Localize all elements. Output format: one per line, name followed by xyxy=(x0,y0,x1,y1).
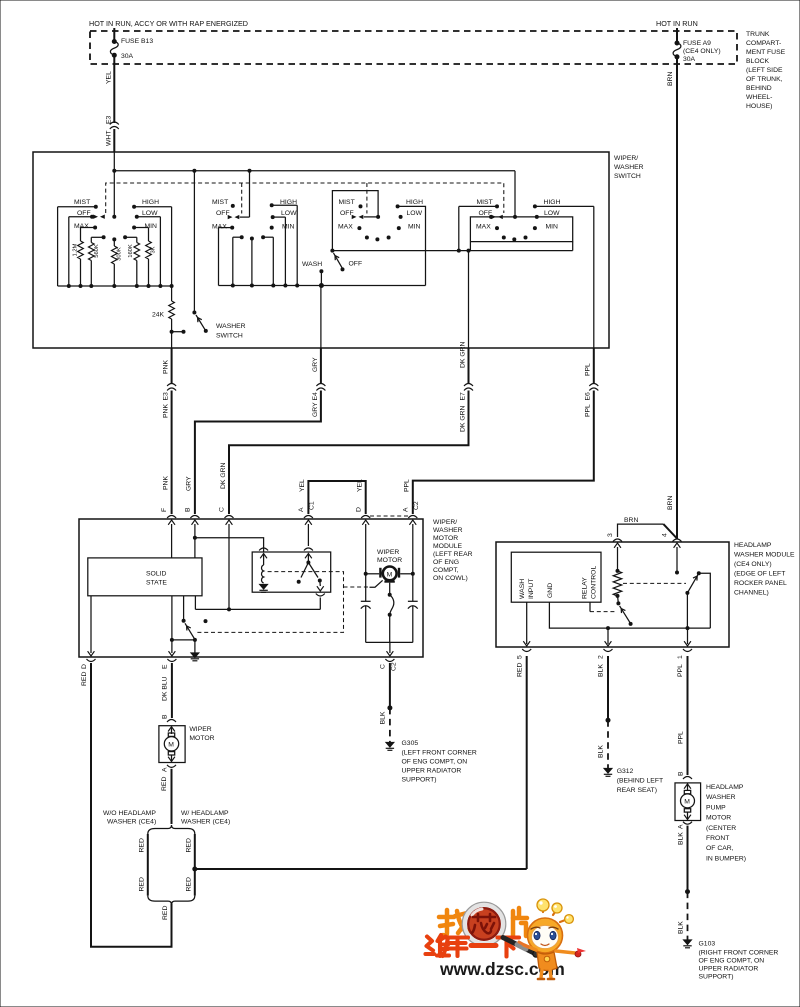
label wiper washer switch xyxy=(614,155,644,180)
pin D top xyxy=(355,507,370,518)
svg-text:WIPER/: WIPER/ xyxy=(614,155,638,162)
watermark char yi xyxy=(471,943,496,948)
relay box xyxy=(252,552,331,592)
svg-text:RED: RED xyxy=(161,777,168,791)
wire RED from pin D xyxy=(91,663,172,947)
svg-text:OF CAR,: OF CAR, xyxy=(706,845,734,852)
svg-text:A: A xyxy=(298,507,305,512)
bank3 LOW contact xyxy=(399,210,423,219)
resistor 24K xyxy=(152,286,186,348)
svg-text:HOT IN RUN: HOT IN RUN xyxy=(656,19,698,28)
svg-text:SWITCH: SWITCH xyxy=(614,173,641,180)
wire to pin E xyxy=(169,596,195,656)
pin D label xyxy=(81,664,88,686)
bank1 HIGH contact xyxy=(132,199,172,209)
svg-text:E3: E3 xyxy=(163,392,170,401)
mascot left arm xyxy=(524,945,536,950)
svg-text:FRONT: FRONT xyxy=(706,835,729,842)
svg-text:IN BUMPER): IN BUMPER) xyxy=(706,855,746,862)
svg-text:BLK: BLK xyxy=(598,745,605,758)
mascot telescope xyxy=(503,938,535,954)
label relay control xyxy=(582,566,598,599)
wire YEL from fuse B13 xyxy=(113,55,115,123)
wire BRN trunk down xyxy=(676,57,678,539)
svg-text:M: M xyxy=(387,571,393,578)
resistor 1.2M xyxy=(73,228,84,287)
pin B xyxy=(185,507,200,518)
gnd rail xyxy=(549,602,710,630)
bank2 MIST contact xyxy=(212,199,235,208)
svg-text:FUSE A9: FUSE A9 xyxy=(683,40,711,47)
wire RED pin5 vertical xyxy=(526,656,528,869)
solid state box xyxy=(88,558,202,596)
svg-text:BLK: BLK xyxy=(678,832,685,845)
svg-text:CONTROL: CONTROL xyxy=(591,566,598,599)
bank3 wiper position dots xyxy=(365,236,391,242)
svg-text:24K: 24K xyxy=(152,312,165,319)
label w/o headlamp washer xyxy=(103,810,156,826)
svg-text:(CE4 ONLY): (CE4 ONLY) xyxy=(734,561,772,568)
svg-text:F: F xyxy=(161,508,168,512)
svg-text:HIGH: HIGH xyxy=(406,199,423,206)
svg-text:UPPER RADIATOR: UPPER RADIATOR xyxy=(699,966,759,973)
svg-text:RELAY: RELAY xyxy=(582,577,589,599)
mascot right arm xyxy=(556,951,575,953)
label headlamp washer module xyxy=(734,542,795,597)
mascot antenna bulbs xyxy=(537,899,549,911)
wire GRY down xyxy=(312,348,321,384)
svg-text:(RIGHT FRONT CORNER: (RIGHT FRONT CORNER xyxy=(699,950,779,957)
svg-text:WASH: WASH xyxy=(519,579,526,599)
motor bottom switch xyxy=(388,583,394,643)
svg-text:BLOCK: BLOCK xyxy=(746,58,770,65)
svg-text:WASH: WASH xyxy=(302,261,322,268)
svg-text:DK GRN: DK GRN xyxy=(459,405,466,432)
wire pin F to solid state xyxy=(171,524,173,558)
pin 4 xyxy=(662,533,682,542)
mechanical link dashed xyxy=(106,183,504,213)
relay switch xyxy=(297,524,325,609)
svg-text:HIGH: HIGH xyxy=(544,199,561,206)
svg-text:M: M xyxy=(684,799,690,806)
svg-text:MIST: MIST xyxy=(339,199,355,206)
bank4 wiper position dots xyxy=(502,236,528,242)
svg-text:OF ENG: OF ENG xyxy=(433,559,459,566)
wire to pin D bottom xyxy=(88,596,95,656)
svg-text:YEL: YEL xyxy=(357,479,364,492)
svg-text:PNK: PNK xyxy=(163,476,170,490)
svg-text:UPPER RADIATOR: UPPER RADIATOR xyxy=(402,768,462,775)
label G305 xyxy=(402,740,477,784)
svg-text:(CENTER: (CENTER xyxy=(706,825,736,832)
svg-text:OF TRUNK,: OF TRUNK, xyxy=(746,76,783,83)
svg-text:(LEFT REAR: (LEFT REAR xyxy=(433,551,473,558)
svg-text:HEADLAMP: HEADLAMP xyxy=(734,542,772,549)
svg-text:E6: E6 xyxy=(585,392,592,401)
svg-text:30A: 30A xyxy=(121,53,134,60)
svg-text:E3: E3 xyxy=(106,115,113,124)
bank2 OFF contact xyxy=(216,171,250,220)
svg-text:WASHER: WASHER xyxy=(614,164,644,171)
dashed relay control link xyxy=(590,602,617,611)
svg-text:RED: RED xyxy=(185,877,192,891)
bank3/4 lower rail xyxy=(332,249,572,348)
svg-text:SUPPORT): SUPPORT) xyxy=(699,974,734,981)
svg-text:MAX: MAX xyxy=(476,224,491,231)
bottom pin arcs xyxy=(87,659,395,662)
wiper motor label internal xyxy=(377,549,402,564)
wire PPL to pin A C2 xyxy=(404,391,594,515)
svg-text:4: 4 xyxy=(662,533,669,537)
label w/ headlamp washer xyxy=(181,810,230,826)
svg-text:PPL: PPL xyxy=(677,664,684,677)
svg-text:LOW: LOW xyxy=(544,210,560,217)
svg-text:C2: C2 xyxy=(391,662,398,671)
park switch xyxy=(182,596,197,642)
svg-text:DK GRN: DK GRN xyxy=(459,341,466,368)
wire pin 2 drop xyxy=(607,628,609,644)
bank1 left rail xyxy=(57,207,59,286)
bank2 wiper commons xyxy=(233,235,273,285)
mascot legs xyxy=(541,969,551,978)
bank4 MIN contact xyxy=(533,224,558,231)
bank1 MIN contact xyxy=(132,223,157,230)
svg-text:WIPER: WIPER xyxy=(377,549,399,556)
svg-text:E7: E7 xyxy=(459,392,466,401)
svg-text:WASHER: WASHER xyxy=(433,527,463,534)
connector E7 xyxy=(464,384,473,391)
pin F xyxy=(161,508,176,518)
wiper motor pin A xyxy=(162,765,177,772)
pin arrows top xyxy=(168,520,416,525)
bank1 LOW contact xyxy=(135,210,161,219)
relay coil headlamp xyxy=(613,547,621,598)
wire WHT to switch xyxy=(113,129,115,152)
wire PNK to pin F xyxy=(163,391,172,515)
watermark char xia xyxy=(498,938,520,957)
connector E3 xyxy=(167,384,176,391)
pin C xyxy=(219,507,234,518)
bank3 OFF contact xyxy=(340,210,380,219)
svg-text:LOW: LOW xyxy=(281,210,297,217)
watermark char zhao white halo xyxy=(439,910,468,935)
bank4 MAX contact xyxy=(476,224,499,231)
svg-text:WASHER: WASHER xyxy=(706,794,736,801)
watermark char ku xyxy=(443,938,469,957)
wire PPL to pump xyxy=(678,656,688,775)
svg-text:C: C xyxy=(219,507,226,512)
pin 2 label xyxy=(598,655,605,677)
svg-text:MIN: MIN xyxy=(145,223,158,230)
svg-text:A: A xyxy=(678,824,685,829)
svg-text:300K: 300K xyxy=(117,247,123,261)
wire DK BLU pin E to wiper motor xyxy=(171,663,173,718)
svg-text:C2: C2 xyxy=(413,501,420,510)
svg-text:B: B xyxy=(678,771,685,776)
merge braces bottom xyxy=(148,896,195,905)
svg-text:MIST: MIST xyxy=(477,199,493,206)
wiper motor pin B xyxy=(162,714,177,722)
svg-text:LOW: LOW xyxy=(142,210,158,217)
mascot body xyxy=(537,952,557,971)
label wash input xyxy=(519,579,535,599)
svg-text:BRN: BRN xyxy=(667,496,674,510)
svg-text:WHEEL-: WHEEL- xyxy=(746,94,772,101)
svg-text:LOW: LOW xyxy=(407,210,423,217)
bank3 MAX contact xyxy=(338,224,361,231)
svg-text:2: 2 xyxy=(598,655,605,659)
svg-text:TRUNK: TRUNK xyxy=(746,31,770,38)
pin A C1 xyxy=(298,501,315,518)
svg-text:PPL: PPL xyxy=(585,404,592,417)
fuse B13 xyxy=(110,38,153,60)
bank1 OFF rail xyxy=(68,217,70,286)
mascot head xyxy=(528,918,563,953)
svg-text:GND: GND xyxy=(547,583,554,598)
bank3 MIN contact xyxy=(397,224,421,231)
wire pin C down xyxy=(228,524,230,609)
svg-text:RED: RED xyxy=(138,838,145,852)
svg-text:PUMP: PUMP xyxy=(706,804,726,811)
wire pin D to motor xyxy=(364,524,380,576)
svg-text:FUSE B13: FUSE B13 xyxy=(121,38,153,45)
svg-text:DK BLU: DK BLU xyxy=(162,676,169,701)
wire pin 4 to contact xyxy=(675,547,679,575)
resistor 3K xyxy=(146,228,157,287)
svg-text:INPUT: INPUT xyxy=(528,579,535,599)
bank1 LOW rail xyxy=(159,217,161,286)
wire RED long horizontal xyxy=(195,868,527,870)
svg-text:DK GRN: DK GRN xyxy=(220,462,227,489)
bank1 MAX contact xyxy=(74,223,97,230)
watermark char pian xyxy=(513,908,527,937)
fuse A9 xyxy=(673,28,721,63)
wire RED below wiper motor xyxy=(161,769,172,824)
pin arrows bottom of headlamp module xyxy=(523,641,691,646)
svg-text:D: D xyxy=(81,664,88,669)
capacitor right xyxy=(408,574,418,643)
svg-text:MIN: MIN xyxy=(546,224,559,231)
top feed bus xyxy=(113,152,115,171)
svg-text:W/ HEADLAMP: W/ HEADLAMP xyxy=(181,810,229,817)
wire to pin C bottom xyxy=(387,642,394,656)
svg-text:BLK: BLK xyxy=(380,711,387,724)
svg-text:HOUSE): HOUSE) xyxy=(746,103,772,110)
svg-text:MOTOR: MOTOR xyxy=(189,735,214,742)
wire RED branch right xyxy=(185,834,197,896)
pin 1 label xyxy=(677,655,684,677)
svg-text:W/O HEADLAMP: W/O HEADLAMP xyxy=(103,810,156,817)
label wiper motor xyxy=(189,726,214,742)
wash switch xyxy=(302,249,362,348)
svg-text:YEL: YEL xyxy=(106,71,113,84)
wire C to relay contact xyxy=(195,596,320,612)
svg-text:BRN: BRN xyxy=(667,72,674,86)
svg-text:B: B xyxy=(185,507,192,512)
pin arrows top of headlamp module xyxy=(614,543,680,548)
watermark magnifier xyxy=(462,902,506,946)
svg-text:30A: 30A xyxy=(683,56,696,63)
svg-text:SWITCH: SWITCH xyxy=(216,333,243,340)
wire pin A C2 to motor xyxy=(344,524,415,587)
pin 3 xyxy=(607,533,622,542)
bank1 feed drop xyxy=(113,171,115,217)
svg-text:D: D xyxy=(355,507,362,512)
svg-text:E4: E4 xyxy=(312,392,319,401)
svg-text:WASHER (CE4): WASHER (CE4) xyxy=(181,819,230,826)
bank4 OFF contact xyxy=(479,171,518,219)
bank1 MIST contact xyxy=(58,199,98,209)
svg-text:(CE4 ONLY): (CE4 ONLY) xyxy=(683,48,721,55)
bank4 LOW contact xyxy=(535,210,573,251)
svg-text:PPL: PPL xyxy=(678,731,685,744)
svg-text:MIN: MIN xyxy=(282,224,295,231)
wire PNK down xyxy=(163,348,172,384)
svg-text:PPL: PPL xyxy=(585,363,592,376)
svg-text:(BEHIND LEFT: (BEHIND LEFT xyxy=(617,778,663,785)
svg-text:OF ENG COMPT, ON: OF ENG COMPT, ON xyxy=(699,958,765,965)
svg-text:RED: RED xyxy=(81,672,88,686)
svg-text:G312: G312 xyxy=(617,768,634,775)
svg-text:OFF: OFF xyxy=(77,210,91,217)
svg-text:RED: RED xyxy=(517,663,524,677)
connector E3 top xyxy=(110,122,119,129)
bank2 LOW contact xyxy=(271,210,297,286)
svg-text:3K: 3K xyxy=(151,246,157,253)
resistor 160K xyxy=(123,235,140,286)
wire feed top left xyxy=(113,28,115,41)
wiper motor xyxy=(159,726,185,763)
headlamp washer pump motor xyxy=(675,783,701,821)
svg-text:160K: 160K xyxy=(128,244,134,258)
pin C label xyxy=(380,662,398,724)
svg-text:COMPT,: COMPT, xyxy=(433,567,459,574)
svg-text:ROCKER PANEL: ROCKER PANEL xyxy=(734,580,787,587)
bank4 MIST contact xyxy=(459,199,499,251)
svg-text:BLK: BLK xyxy=(598,664,605,677)
svg-text:OFF: OFF xyxy=(340,210,354,217)
node dot xyxy=(204,619,208,623)
svg-text:REAR SEAT): REAR SEAT) xyxy=(617,787,657,794)
pin 5 label xyxy=(517,655,524,677)
mascot eyes xyxy=(531,927,558,929)
svg-text:(LEFT FRONT CORNER: (LEFT FRONT CORNER xyxy=(402,750,477,757)
svg-text:B: B xyxy=(162,714,169,719)
svg-text:(EDGE OF LEFT: (EDGE OF LEFT xyxy=(734,571,785,578)
bank2 bottom bus xyxy=(219,284,426,288)
pump pin A xyxy=(678,822,692,845)
svg-text:OFF: OFF xyxy=(349,261,363,268)
svg-text:E: E xyxy=(162,664,169,669)
label G103 xyxy=(699,941,779,981)
washer switch xyxy=(192,171,245,340)
wire DK GRN to pin C xyxy=(220,391,469,515)
svg-text:MIST: MIST xyxy=(74,199,90,206)
dashed coil to contact xyxy=(623,582,686,584)
label wiper washer motor module xyxy=(433,519,473,582)
pin A C2 xyxy=(402,501,419,518)
svg-text:1: 1 xyxy=(677,655,684,659)
wire BLK below pump xyxy=(678,826,692,948)
svg-text:MAX: MAX xyxy=(338,224,353,231)
svg-text:(LEFT SIDE: (LEFT SIDE xyxy=(746,67,783,74)
wiper washer switch box xyxy=(33,152,609,348)
label trunk fuse block xyxy=(746,31,786,110)
wire pin B to solid state and relay xyxy=(193,524,264,558)
mascot mouth xyxy=(541,944,549,946)
wire RED branch left xyxy=(138,834,148,896)
svg-text:WIPER/: WIPER/ xyxy=(433,519,457,526)
wire GRY to pin B xyxy=(186,391,321,515)
wire PPL down xyxy=(585,348,594,384)
dashed relay link xyxy=(197,572,344,633)
svg-text:BEHIND: BEHIND xyxy=(746,85,772,92)
svg-text:MOTOR: MOTOR xyxy=(377,557,402,564)
svg-text:WASHER: WASHER xyxy=(216,323,246,330)
svg-text:WHT: WHT xyxy=(106,131,113,146)
trunk fuse block dashed box xyxy=(90,31,737,64)
svg-text:OFF: OFF xyxy=(216,210,230,217)
G305 ground branch xyxy=(386,663,394,750)
watermark char zhao xyxy=(439,910,468,935)
svg-text:WASHER MODULE: WASHER MODULE xyxy=(734,552,795,559)
svg-text:HIGH: HIGH xyxy=(142,199,159,206)
wire YEL jumper xyxy=(299,479,366,514)
svg-text:C1: C1 xyxy=(308,501,315,510)
relay coil xyxy=(259,548,268,583)
bank2 MAX contact xyxy=(212,224,234,286)
svg-text:PPL: PPL xyxy=(404,479,411,492)
svg-text:PNK: PNK xyxy=(163,360,170,374)
svg-text:3: 3 xyxy=(607,533,614,537)
svg-text:A: A xyxy=(402,507,409,512)
svg-text:MIN: MIN xyxy=(408,224,421,231)
motor bottom rail xyxy=(366,641,413,643)
svg-text:560K: 560K xyxy=(94,244,100,258)
capacitor left xyxy=(361,574,371,643)
SECTION WATERMARK xyxy=(426,899,587,979)
watermark char pian white halo xyxy=(513,908,527,937)
bank2 HIGH contact xyxy=(270,199,298,286)
bank2 MIN contact xyxy=(270,224,295,231)
label headlamp washer pump motor xyxy=(706,784,746,862)
connector E4 xyxy=(316,384,325,391)
svg-text:G305: G305 xyxy=(402,740,419,747)
svg-text:MOTOR: MOTOR xyxy=(706,815,731,822)
bank1 bottom bus xyxy=(58,284,174,288)
svg-text:WASHER (CE4): WASHER (CE4) xyxy=(107,819,156,826)
svg-text:GRY: GRY xyxy=(312,402,319,417)
svg-text:WIPER: WIPER xyxy=(189,726,211,733)
svg-text:A: A xyxy=(162,767,169,772)
dashed connector C2 group xyxy=(370,515,408,517)
wiper washer motor module box xyxy=(79,519,423,657)
internal motor M xyxy=(380,567,399,582)
svg-text:STATE: STATE xyxy=(146,580,167,587)
svg-text:CHANNEL): CHANNEL) xyxy=(734,590,769,597)
watermark char wei xyxy=(426,935,450,956)
svg-text:HOT IN RUN, ACCY OR WITH RAP E: HOT IN RUN, ACCY OR WITH RAP ENERGIZED xyxy=(89,19,248,28)
svg-text:COMPART-: COMPART- xyxy=(746,40,781,47)
split braces top xyxy=(148,825,195,834)
svg-text:M: M xyxy=(168,742,174,749)
headlamp relay contact switch xyxy=(685,571,710,628)
svg-text:MOTOR: MOTOR xyxy=(433,535,458,542)
resistor 560K xyxy=(89,235,106,286)
svg-text:RED: RED xyxy=(138,877,145,891)
wire BRN into module xyxy=(618,496,678,539)
svg-text:PNK: PNK xyxy=(163,404,170,418)
